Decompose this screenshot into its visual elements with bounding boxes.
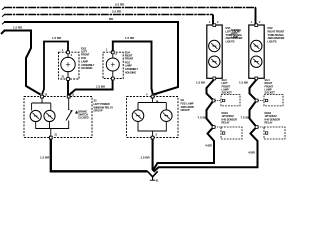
ground wire from switch box bbox=[51, 139, 148, 171]
svg-text:1.5 BK: 1.5 BK bbox=[196, 81, 206, 85]
svg-text:LAMP: LAMP bbox=[125, 64, 132, 68]
svg-text:SOCKET: SOCKET bbox=[265, 91, 276, 95]
svg-text:RIGHT FRONT: RIGHT FRONT bbox=[268, 29, 285, 33]
svg-text:15: 15 bbox=[44, 93, 47, 97]
switch inside box bbox=[60, 98, 78, 129]
E2 text block bbox=[125, 51, 139, 75]
svg-text:RD: RD bbox=[109, 17, 114, 21]
wire to fog lamp pair (horizontal 1.5 BK) bbox=[69, 80, 113, 96]
connector box S1 col1 bbox=[221, 95, 240, 106]
svg-text:1.5 RD: 1.5 RD bbox=[52, 36, 62, 40]
svg-text:WITH: WITH bbox=[231, 31, 237, 35]
svg-text:G8: G8 bbox=[181, 98, 185, 102]
svg-text:1: 1 bbox=[106, 47, 108, 51]
wire loop to lamp E1 bbox=[42, 42, 68, 95]
svg-text:1: 1 bbox=[209, 20, 211, 24]
connector pin col2 lower bbox=[255, 126, 264, 129]
svg-text:7.5 BK: 7.5 BK bbox=[198, 116, 208, 120]
svg-text:3: 3 bbox=[156, 133, 158, 137]
svg-text:FOG: FOG bbox=[81, 56, 86, 60]
svg-text:SHOWN: SHOWN bbox=[231, 28, 241, 32]
ground run col 1 bbox=[153, 80, 214, 172]
wire from left edge to stop lamp switch box bbox=[1, 31, 41, 95]
svg-text:CLOSED: CLOSED bbox=[78, 116, 88, 120]
svg-text:2: 2 bbox=[217, 20, 219, 24]
wire E2 top loop bbox=[113, 42, 153, 95]
svg-text:11: 11 bbox=[71, 93, 74, 97]
svg-text:2.5 RD: 2.5 RD bbox=[112, 10, 122, 14]
svg-text:LAMP: LAMP bbox=[231, 35, 238, 39]
svg-text:AND HORN: AND HORN bbox=[181, 105, 194, 109]
svg-text:AND MARKER: AND MARKER bbox=[268, 36, 285, 40]
wire bus2 to E3 bbox=[212, 15, 214, 25]
svg-text:2: 2 bbox=[71, 53, 73, 57]
E4 text block bbox=[268, 26, 285, 44]
ground wire from horn box bbox=[152, 140, 154, 171]
connector pin col2 upper bbox=[255, 99, 264, 102]
stop lamp switch dashed box (bottom left) bbox=[24, 95, 92, 139]
svg-text:7.5 BK: 7.5 BK bbox=[241, 116, 251, 120]
svg-text:E5/2: E5/2 bbox=[268, 26, 274, 30]
svg-text:1.5 BR: 1.5 BR bbox=[140, 156, 150, 160]
bus 15 RD (middle) bbox=[2, 15, 213, 17]
svg-text:1.5 BR: 1.5 BR bbox=[40, 156, 50, 160]
ground run col 2 bbox=[154, 80, 258, 172]
N2 text block bbox=[265, 111, 281, 125]
E4 left text block bbox=[231, 28, 241, 39]
lamp unit E1 (left, solid box with bulb) bbox=[59, 51, 80, 81]
svg-text:S5: S5 bbox=[94, 99, 98, 103]
connector box S2 col2 bbox=[264, 95, 283, 106]
lamp assembly E3 (right col 1, two bulbs) bbox=[207, 24, 222, 80]
horn text block bbox=[181, 98, 194, 112]
svg-text:2: 2 bbox=[259, 20, 261, 24]
connector pin col1 upper bbox=[212, 99, 221, 102]
svg-text:GROUP: GROUP bbox=[181, 108, 190, 112]
svg-text:LIGHTS: LIGHTS bbox=[226, 40, 235, 44]
svg-text:1: 1 bbox=[251, 20, 253, 24]
E3 text block bbox=[226, 26, 243, 44]
svg-text:RELAY: RELAY bbox=[265, 121, 273, 125]
switch text bbox=[78, 110, 88, 120]
horn unit dashed box (bottom middle) bbox=[127, 95, 179, 139]
S1 text block bbox=[222, 78, 233, 95]
lamp unit E2 (dashed box with bulb) bbox=[103, 51, 123, 80]
S2 text block bbox=[265, 78, 276, 95]
svg-text:1.5 BK: 1.5 BK bbox=[96, 84, 106, 88]
svg-text:4: 4 bbox=[146, 93, 148, 97]
svg-text:LIGHTS: LIGHTS bbox=[268, 40, 277, 44]
svg-text:2.5 RD: 2.5 RD bbox=[115, 3, 125, 7]
svg-text:LAMP: LAMP bbox=[81, 59, 88, 63]
svg-text:FOG LAMP: FOG LAMP bbox=[181, 101, 194, 105]
N1 text block bbox=[222, 111, 238, 125]
svg-text:ASSEMBLY: ASSEMBLY bbox=[125, 67, 139, 71]
svg-text:GROUP: GROUP bbox=[94, 109, 103, 113]
svg-text:31: 31 bbox=[62, 75, 65, 79]
ground symbol W10 bbox=[148, 171, 158, 180]
svg-text:ASSEMBLY: ASSEMBLY bbox=[81, 63, 95, 67]
svg-text:1.5 BK: 1.5 BK bbox=[239, 81, 249, 85]
svg-text:31: 31 bbox=[156, 178, 159, 182]
wire bus1 to E4 bbox=[255, 8, 257, 25]
svg-text:LEFT POWER: LEFT POWER bbox=[94, 102, 110, 106]
svg-text:HOUSING: HOUSING bbox=[81, 66, 92, 70]
bus 30 RD (top) bbox=[2, 8, 256, 10]
switch box text block bbox=[94, 99, 114, 113]
connector box N2 col2 bbox=[264, 127, 285, 139]
connector box N1 col1 bbox=[221, 127, 242, 139]
svg-text:SOCKET: SOCKET bbox=[222, 91, 233, 95]
svg-text:HOUSING: HOUSING bbox=[125, 70, 136, 74]
connector pin col1 lower bbox=[212, 126, 221, 129]
svg-text:1: 1 bbox=[62, 48, 64, 52]
lamp assembly E4 (right col 2, two bulbs) bbox=[249, 24, 264, 80]
svg-text:4 BR: 4 BR bbox=[205, 144, 213, 148]
svg-text:TURN SIGNAL: TURN SIGNAL bbox=[268, 33, 285, 37]
svg-text:WINDOW RELAY: WINDOW RELAY bbox=[94, 105, 114, 109]
wire E1 to switch box pin bbox=[67, 81, 69, 96]
svg-text:4 BR: 4 BR bbox=[248, 151, 256, 155]
svg-text:RELAY: RELAY bbox=[222, 121, 230, 125]
svg-text:1.5 RD: 1.5 RD bbox=[13, 25, 23, 29]
svg-text:31: 31 bbox=[54, 133, 57, 137]
bus 4.0 RD (third, solid) bbox=[2, 22, 178, 95]
svg-text:FRONT: FRONT bbox=[125, 57, 134, 61]
svg-text:1.5 RD: 1.5 RD bbox=[125, 36, 135, 40]
E1 text block bbox=[81, 47, 95, 71]
